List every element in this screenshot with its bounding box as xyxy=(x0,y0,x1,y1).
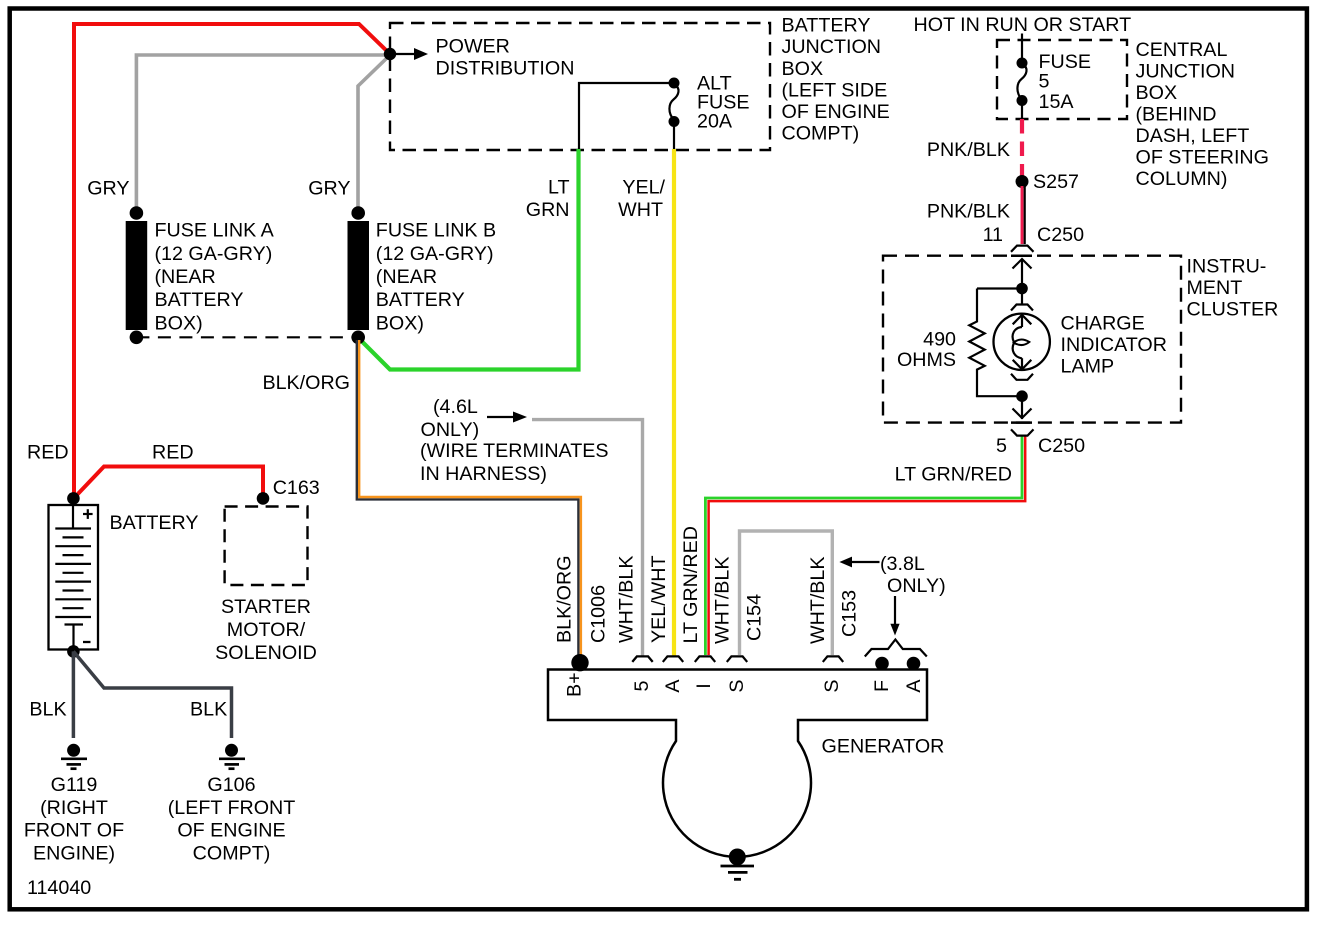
svg-text:C1006: C1006 xyxy=(588,585,610,643)
connector hat pin 5 xyxy=(632,656,652,662)
arrow 4.6L to wire xyxy=(487,412,527,423)
label ALT FUSE 20A xyxy=(697,73,750,133)
svg-text:OF ENGINE: OF ENGINE xyxy=(177,820,285,842)
svg-text:(12 GA-GRY): (12 GA-GRY) xyxy=(155,243,273,265)
wire BLK battery to G119 xyxy=(72,651,76,738)
label LT GRN xyxy=(526,177,570,222)
battery junction box (dashed) xyxy=(390,23,770,150)
label 490 OHMS xyxy=(897,329,956,372)
fuse link A xyxy=(126,206,148,344)
svg-text:WHT/BLK: WHT/BLK xyxy=(712,556,734,644)
svg-text:(3.8L: (3.8L xyxy=(880,553,925,575)
svg-text:YEL/WHT: YEL/WHT xyxy=(648,555,670,643)
svg-text:COMPT): COMPT) xyxy=(782,123,860,145)
svg-text:BOX): BOX) xyxy=(155,312,203,334)
arrow to power distribution xyxy=(396,48,428,60)
svg-text:MOTOR/: MOTOR/ xyxy=(227,619,306,641)
svg-text:ENGINE): ENGINE) xyxy=(33,843,115,865)
svg-text:GRY: GRY xyxy=(308,178,350,200)
svg-text:YEL/: YEL/ xyxy=(622,177,665,199)
wire black ALT fuse lower stub (feeds YEL/WHT) xyxy=(673,122,675,150)
wire RED battery to starter solenoid C163 xyxy=(74,467,263,499)
svg-text:INSTRU-: INSTRU- xyxy=(1187,256,1267,278)
wire black fuse to box bottom xyxy=(1021,101,1023,120)
svg-text:LT: LT xyxy=(548,177,570,199)
instrument cluster box (dashed) xyxy=(883,256,1181,423)
svg-text:OHMS: OHMS xyxy=(897,349,956,371)
svg-text:C163: C163 xyxy=(273,477,320,499)
label (4.6L ONLY) xyxy=(421,396,480,441)
svg-text:LT GRN/RED: LT GRN/RED xyxy=(680,526,702,643)
svg-text:BLK: BLK xyxy=(29,699,66,721)
wire BLK/ORG fuse link B to generator B+ (orange strand) xyxy=(359,340,581,656)
label (3.8L ONLY) xyxy=(880,553,946,597)
svg-text:LT GRN/RED: LT GRN/RED xyxy=(895,464,1012,486)
svg-text:A: A xyxy=(903,679,925,693)
node power distribution junction xyxy=(384,48,396,60)
svg-text:BATTERY: BATTERY xyxy=(782,15,871,37)
svg-text:BOX: BOX xyxy=(782,58,824,80)
svg-text:BATTERY: BATTERY xyxy=(110,512,199,534)
fuse ALT FUSE 20A xyxy=(669,78,680,128)
starter motor/solenoid box (dashed) xyxy=(225,507,308,586)
label FUSE LINK B xyxy=(376,220,496,335)
svg-text:LAMP: LAMP xyxy=(1061,356,1115,378)
connector C250 lower blade (bar on cluster edge) xyxy=(1011,254,1032,257)
wire RED battery to power distribution junction xyxy=(74,24,390,498)
connector hat pin A xyxy=(663,656,683,662)
connector C250 bottom half xyxy=(1011,429,1034,435)
wire GRY fuse link A to junction xyxy=(136,55,388,213)
wire LT GRN/RED C250 to generator pin I (red strand) xyxy=(709,437,1026,656)
svg-text:COMPT): COMPT) xyxy=(193,843,271,865)
label YEL/WHT xyxy=(618,177,665,222)
arrow 3.8L pointing left at C153 wire xyxy=(839,557,879,568)
wire PNK/BLK solid segment xyxy=(1022,186,1025,244)
svg-text:ONLY): ONLY) xyxy=(887,575,946,597)
svg-text:COLUMN): COLUMN) xyxy=(1136,168,1228,190)
svg-text:490: 490 xyxy=(923,329,956,351)
svg-text:GRY: GRY xyxy=(87,178,129,200)
svg-text:BLK/ORG: BLK/ORG xyxy=(554,555,576,643)
connector C250 upper half xyxy=(1011,246,1034,252)
fuse FUSE 5 15A xyxy=(1017,58,1028,107)
label BATTERY JUNCTION BOX xyxy=(782,15,890,145)
svg-text:(4.6L: (4.6L xyxy=(433,396,478,418)
svg-text:ONLY): ONLY) xyxy=(421,419,480,441)
svg-text:(NEAR: (NEAR xyxy=(155,266,216,288)
svg-text:C250: C250 xyxy=(1038,435,1085,457)
wire junction to lamp top xyxy=(1021,289,1023,305)
svg-text:5: 5 xyxy=(996,435,1007,457)
central junction box (dashed) xyxy=(997,40,1127,119)
svg-text:C154: C154 xyxy=(744,594,766,641)
svg-text:BATTERY: BATTERY xyxy=(376,289,465,311)
wire LT GRN from box to fuse link B xyxy=(358,149,579,370)
dashed tie line between fuse link bottoms xyxy=(136,336,358,338)
svg-text:GRN: GRN xyxy=(526,199,570,221)
label (WIRE TERMINATES IN HARNESS) xyxy=(420,440,609,485)
connector hat pin I xyxy=(695,656,715,662)
svg-text:OF STEERING: OF STEERING xyxy=(1136,147,1269,169)
svg-text:(BEHIND: (BEHIND xyxy=(1136,104,1217,126)
wire WHT/BLK 4.6L to generator pin 5 xyxy=(532,420,643,656)
svg-text:DISTRIBUTION: DISTRIBUTION xyxy=(436,57,575,79)
svg-text:(RIGHT: (RIGHT xyxy=(40,797,108,819)
wire with down arrow out of cluster xyxy=(1013,396,1032,419)
lamp upper connector hat xyxy=(1011,305,1033,311)
generator body xyxy=(548,670,927,857)
connector hat pin S C154 xyxy=(727,656,747,662)
svg-text:MENT: MENT xyxy=(1187,277,1243,299)
node C163 xyxy=(257,492,270,505)
svg-text:BLK/ORG: BLK/ORG xyxy=(262,372,350,394)
svg-text:(WIRE TERMINATES: (WIRE TERMINATES xyxy=(420,440,609,462)
resistor 490 OHMS xyxy=(969,289,1022,397)
terminal dot A xyxy=(907,657,921,671)
wire BLK/ORG fuse link B to generator B+ (black strand) xyxy=(357,340,579,656)
wire YEL/WHT from box to generator pin A xyxy=(672,149,676,656)
wire with up arrow into cluster xyxy=(1013,259,1032,289)
svg-text:(LEFT FRONT: (LEFT FRONT xyxy=(168,797,296,819)
ground G106 xyxy=(219,744,245,769)
svg-text:F: F xyxy=(871,680,893,692)
terminal dot F xyxy=(875,657,889,671)
svg-text:HOT IN RUN OR START: HOT IN RUN OR START xyxy=(914,14,1132,36)
ground G119 xyxy=(61,744,87,769)
svg-text:GENERATOR: GENERATOR xyxy=(822,736,945,758)
svg-text:INDICATOR: INDICATOR xyxy=(1061,334,1167,356)
svg-text:JUNCTION: JUNCTION xyxy=(1136,61,1236,83)
battery xyxy=(49,492,99,658)
svg-text:CHARGE: CHARGE xyxy=(1061,313,1145,335)
label FUSE LINK A xyxy=(155,220,275,335)
svg-text:BLK: BLK xyxy=(190,699,227,721)
svg-text:B+: B+ xyxy=(564,672,586,697)
svg-text:FRONT OF: FRONT OF xyxy=(24,820,124,842)
arrow 3.8L pointing down at F/A pins xyxy=(890,596,899,636)
svg-text:WHT/BLK: WHT/BLK xyxy=(616,555,638,643)
wire black ALT fuse to box bottom (feeds LT GRN) xyxy=(579,83,674,149)
svg-text:114040: 114040 xyxy=(27,877,91,899)
svg-text:(12 GA-GRY): (12 GA-GRY) xyxy=(376,243,494,265)
svg-text:POWER: POWER xyxy=(436,36,510,58)
wire GRY fuse link B to junction xyxy=(358,55,390,213)
svg-text:(LEFT SIDE: (LEFT SIDE xyxy=(782,79,888,101)
node S257 xyxy=(1016,175,1029,188)
node lamp bottom junction xyxy=(1016,390,1028,402)
label POWER DISTRIBUTION xyxy=(436,36,575,80)
connector hat pin S C153 xyxy=(823,656,843,662)
ground at generator xyxy=(721,849,755,880)
label G106 (LEFT FRONT OF ENGINE COMPT) xyxy=(168,774,296,865)
svg-text:RED: RED xyxy=(27,442,69,464)
svg-text:15A: 15A xyxy=(1039,91,1075,113)
label CENTRAL JUNCTION BOX xyxy=(1136,39,1269,190)
terminal dot B+ xyxy=(571,654,588,671)
svg-text:FUSE LINK A: FUSE LINK A xyxy=(155,220,275,242)
label FUSE 5 15A xyxy=(1039,51,1092,113)
resistor branch wire upper xyxy=(977,287,1022,289)
svg-text:5: 5 xyxy=(631,680,653,691)
svg-text:(NEAR: (NEAR xyxy=(376,266,437,288)
svg-text:BOX: BOX xyxy=(1136,82,1178,104)
label INSTRU- MENT CLUSTER xyxy=(1187,256,1279,321)
svg-text:CENTRAL: CENTRAL xyxy=(1136,39,1228,61)
svg-text:I: I xyxy=(693,683,715,688)
lamp lower connector hat xyxy=(1011,374,1033,380)
svg-text:FUSE LINK B: FUSE LINK B xyxy=(376,220,496,242)
wire LT GRN/RED C250 to generator pin I (green strand) xyxy=(705,437,1022,656)
svg-text:WHT: WHT xyxy=(618,199,663,221)
svg-text:5: 5 xyxy=(1039,71,1050,93)
svg-text:DASH, LEFT: DASH, LEFT xyxy=(1136,125,1250,147)
svg-text:PNK/BLK: PNK/BLK xyxy=(927,201,1010,223)
svg-text:BATTERY: BATTERY xyxy=(155,289,244,311)
connector C250 lower exit blade xyxy=(1011,421,1032,424)
svg-text:STARTER: STARTER xyxy=(221,596,311,618)
node lamp top junction xyxy=(1016,283,1028,295)
wire black into central junction box xyxy=(1021,34,1023,64)
svg-text:CLUSTER: CLUSTER xyxy=(1187,299,1279,321)
svg-text:S: S xyxy=(821,679,843,692)
svg-text:RED: RED xyxy=(152,442,194,464)
svg-text:OF ENGINE: OF ENGINE xyxy=(782,101,890,123)
charge indicator lamp xyxy=(994,314,1050,370)
svg-text:IN HARNESS): IN HARNESS) xyxy=(420,463,547,485)
svg-text:C250: C250 xyxy=(1037,224,1084,246)
svg-text:S: S xyxy=(726,679,748,692)
wire WHT/BLK loop S(C154) to S(C153) xyxy=(740,531,833,655)
fuse link B xyxy=(348,206,370,344)
svg-text:JUNCTION: JUNCTION xyxy=(782,36,882,58)
svg-text:A: A xyxy=(662,679,684,693)
label STARTER MOTOR/ SOLENOID xyxy=(215,596,317,664)
label G119 (RIGHT FRONT OF ENGINE) xyxy=(24,774,124,865)
wire BLK battery to G106 xyxy=(73,651,231,738)
svg-text:S257: S257 xyxy=(1033,171,1079,193)
wire PNK/BLK dashed segment xyxy=(1020,119,1024,177)
bracket over F and A pins xyxy=(865,640,927,657)
label CHARGE INDICATOR LAMP xyxy=(1061,313,1167,378)
svg-text:20A: 20A xyxy=(697,111,733,133)
svg-text:11: 11 xyxy=(983,224,1003,246)
svg-text:PNK/BLK: PNK/BLK xyxy=(927,139,1010,161)
svg-text:C153: C153 xyxy=(839,590,861,637)
svg-text:WHT/BLK: WHT/BLK xyxy=(807,556,829,644)
svg-text:SOLENOID: SOLENOID xyxy=(215,642,317,664)
svg-text:G119: G119 xyxy=(51,774,98,796)
svg-text:G106: G106 xyxy=(207,774,255,796)
svg-text:BOX): BOX) xyxy=(376,312,424,334)
